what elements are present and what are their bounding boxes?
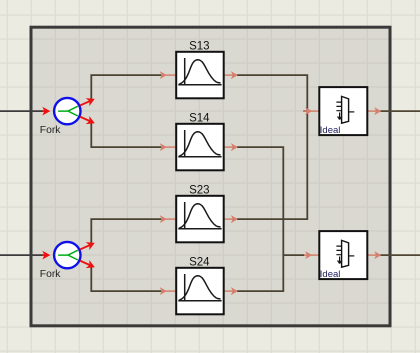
wire Ideal2 output to edge xyxy=(380,254,420,256)
svg-text:S23: S23 xyxy=(189,184,209,196)
fork F2 xyxy=(54,242,80,268)
red output arrow fork1 up xyxy=(78,95,96,110)
wire junction to Ideal1 input xyxy=(304,110,308,112)
salmon output arrow S23 xyxy=(224,215,238,223)
fork F1 xyxy=(54,98,80,124)
red input arrow fork1 xyxy=(42,107,50,116)
svg-text:Fork: Fork xyxy=(40,125,61,136)
salmon input arrow Ideal1 xyxy=(304,107,319,115)
salmon output arrow Ideal1 xyxy=(368,107,382,115)
salmon input arrow Ideal2 xyxy=(304,251,319,259)
block S24 xyxy=(176,268,224,315)
salmon output arrow S13 xyxy=(224,71,238,79)
salmon input arrow S13 xyxy=(160,71,176,79)
wire S13/S23 to Ideal1 xyxy=(237,75,307,219)
salmon output arrow S14 xyxy=(224,143,238,151)
svg-text:Fork: Fork xyxy=(40,269,61,280)
subnetwork box xyxy=(31,27,390,326)
red output arrow fork2 up xyxy=(78,239,96,254)
svg-text:S14: S14 xyxy=(189,112,210,124)
wire S14/S24 to Ideal2 xyxy=(237,147,283,291)
red input arrow fork2 xyxy=(42,251,50,260)
block S23 xyxy=(176,196,224,243)
wire input net 1 xyxy=(0,110,44,112)
wire Ideal1 output to edge xyxy=(380,110,420,112)
svg-text:S13: S13 xyxy=(189,40,209,52)
wire fork1 to S13 xyxy=(91,75,163,101)
svg-text:S24: S24 xyxy=(189,256,210,268)
block S14 xyxy=(176,124,224,171)
svg-text:Ideal: Ideal xyxy=(320,125,341,136)
wire fork2 to S23 xyxy=(91,219,163,245)
salmon input arrow S24 xyxy=(160,287,176,295)
salmon output arrow S24 xyxy=(224,287,238,295)
svg-text:Ideal: Ideal xyxy=(320,269,341,280)
wire input net 2 xyxy=(0,254,44,256)
salmon input arrow S14 xyxy=(160,143,176,151)
wire fork2 to S24 xyxy=(91,266,163,292)
block S13 xyxy=(176,52,224,99)
wire junction to Ideal2 input xyxy=(283,254,304,256)
salmon input arrow S23 xyxy=(160,215,176,223)
salmon output arrow Ideal2 xyxy=(368,251,382,259)
red output arrow fork2 down xyxy=(78,257,96,272)
red output arrow fork1 down xyxy=(78,113,96,128)
wire fork1 to S14 xyxy=(91,122,163,148)
block Ideal1 (combiner) xyxy=(319,87,367,135)
block Ideal2 (combiner) xyxy=(319,231,367,279)
